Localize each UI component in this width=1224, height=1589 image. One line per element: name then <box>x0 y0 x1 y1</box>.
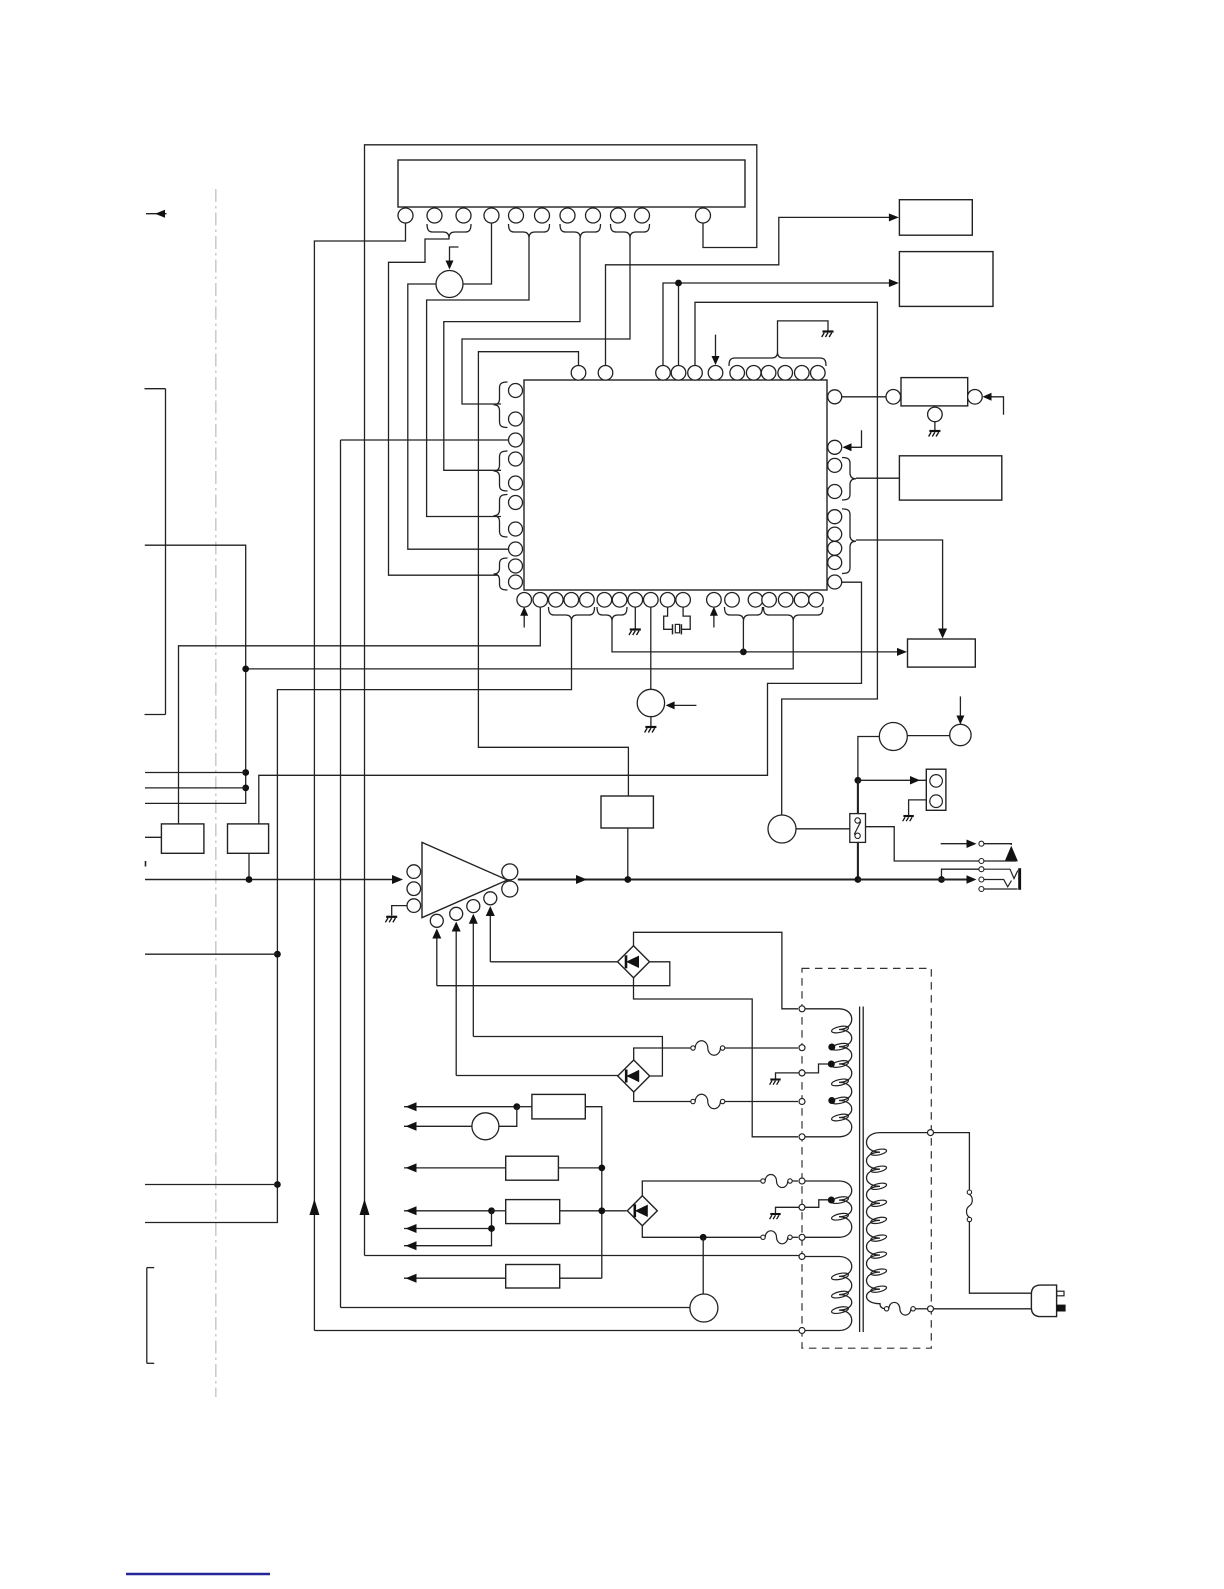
connector CN1 pin 8 <box>586 208 601 223</box>
left stub into box alpha <box>145 836 161 838</box>
switch SW1 lever <box>854 822 861 835</box>
left stub wire y788 <box>145 787 246 789</box>
tap t7 wire <box>805 1200 829 1208</box>
main line final segment <box>858 878 970 880</box>
connector CN1 pin 3 <box>456 208 471 223</box>
wire bridge D2 bottom to fuse F2 <box>634 1092 691 1102</box>
wire switch SW1 bottom to main line <box>857 842 859 879</box>
bridge rectifier D3 <box>627 1196 657 1226</box>
wire fuse F1 to transformer t2 <box>725 1047 798 1049</box>
connector CN1 pin 11 <box>696 208 711 223</box>
wire IC top pins T3/T4 to box B <box>663 279 899 366</box>
main line output segment <box>518 878 858 880</box>
IC U1 right pin R5 <box>828 510 842 524</box>
junction main line to T3 <box>938 876 945 883</box>
op-amp input pin 2 <box>407 882 421 896</box>
tiny tick at left edge <box>145 861 147 867</box>
connector CN1 pin 2 <box>427 208 442 223</box>
wire CN1 pin1 to bus x314 <box>314 223 405 1331</box>
wire bridge D3 top to fuse F3 <box>642 1181 761 1196</box>
wire main junction up to jack T3 <box>942 869 979 879</box>
transformer secondary winding <box>867 1133 929 1309</box>
transformer terminal t5 <box>799 1134 805 1140</box>
junction arrow4 node <box>488 1207 495 1214</box>
wire IC top pin T2 to box A <box>606 213 899 365</box>
wire CN1 pins5-6 brace to IC brace L6-7 <box>427 238 529 517</box>
jack terminal T2 <box>979 859 984 864</box>
AC plug P1 body <box>1031 1285 1056 1317</box>
ground at tap t3 <box>770 1073 799 1085</box>
stem op-amp pin8 to bridge D2 wrap <box>469 914 663 1076</box>
IC U1 bottom pin B14 <box>748 593 763 608</box>
tap t7 dot <box>828 1197 835 1204</box>
ground at op-amp pin 3 <box>385 906 407 923</box>
IC U1 bottom pin B13 <box>725 593 740 608</box>
left connector bracket 1 <box>145 389 166 715</box>
switch SW1 contact 2 <box>855 833 860 838</box>
wire to IC pin L3 from bus x340 <box>341 440 509 1308</box>
headphone jack box body <box>926 769 946 810</box>
junction at switch top <box>855 777 862 784</box>
junction R3 on bus x601 <box>598 1207 605 1214</box>
IC U1 bottom pin B6 <box>597 593 612 608</box>
stem op-amp pin7 to bridge D2 left <box>452 922 619 1076</box>
IC U1 bottom pin B12 <box>707 593 722 608</box>
IC U1 body <box>524 380 827 590</box>
box beta <box>228 824 269 853</box>
IC U1 bottom pin B1 <box>517 593 532 608</box>
arrow on main line after op-amp <box>576 875 587 884</box>
jack terminal T1 <box>979 841 984 846</box>
transformer terminal t9 <box>799 1254 805 1260</box>
wire IC brace B3-B5 to bus x277 <box>145 621 572 1223</box>
arrow wire junction to jack box <box>858 776 926 785</box>
wire box R2 right to bus x601 <box>558 1167 601 1169</box>
wire circle C9 up to junction <box>499 1107 517 1127</box>
fuse F5 vertical <box>967 1190 973 1222</box>
wire switch SW1 right to jack T2 <box>866 827 979 861</box>
IC U1 bottom pin B9 <box>644 593 659 608</box>
jack terminal T4 <box>979 877 984 882</box>
op-amp bottom pin 9 <box>484 892 497 905</box>
up arrow on bus x364 <box>360 1199 370 1215</box>
brace under CN1 pins 2-3 <box>427 224 471 238</box>
brace at IC right pins R5-R8 <box>842 509 856 574</box>
brace under IC bottom pins B13-B14 <box>725 607 763 621</box>
up arrow on bus x314 <box>309 1199 319 1215</box>
transformer terminal t1 <box>799 1006 805 1012</box>
circle C7 <box>879 723 907 751</box>
arrow into motor M1 <box>446 247 459 270</box>
brace under CN1 pins 9-10 <box>611 224 650 238</box>
IC U1 left pin L10 <box>509 575 523 589</box>
IC U1 bottom pin B16 <box>778 593 793 608</box>
left arrow 3 <box>404 1163 506 1172</box>
op-amp bottom pin 6 <box>430 914 443 927</box>
junction T4 on box B wire <box>675 280 682 287</box>
IC U1 bottom pin B18 <box>809 593 824 608</box>
junction arrow1/circle C9 <box>513 1103 520 1110</box>
brace under IC bottom pins B3-B5 <box>549 607 595 621</box>
left stub wire y772 <box>145 772 246 774</box>
wire box R4 right to bus x601 <box>560 1277 602 1279</box>
arrow into jack T4 <box>967 875 977 884</box>
junction bus x277 stub2 <box>274 1181 281 1188</box>
jack T2 to tip contact <box>984 860 1017 862</box>
jack box contact 2 <box>930 795 943 808</box>
switch SW1 body <box>850 814 866 843</box>
wire bus x314 to transformer t10 <box>314 1330 802 1332</box>
wire terminal s1 to fuse F5 <box>934 1133 970 1190</box>
IC U1 left pin L7 <box>509 522 523 536</box>
IC U1 bottom pin B17 <box>794 593 809 608</box>
transformer terminal t7 <box>799 1204 805 1210</box>
transformer terminal t8 <box>799 1234 805 1240</box>
ground at jack box <box>903 800 927 821</box>
brace at IC right pins R3-R4 <box>842 458 856 501</box>
box alpha <box>161 824 204 853</box>
wire CN1 pins9-10 brace to IC brace L1-2 <box>462 238 630 404</box>
left arrow 6 head <box>406 1241 417 1250</box>
wire circle C6 to switch SW1 <box>796 828 850 830</box>
fuse F6 secondary <box>884 1302 915 1315</box>
wire circle C7 to C8 <box>907 735 949 737</box>
transformer primary winding 1 <box>805 1009 852 1137</box>
fuse F1 <box>691 1041 725 1055</box>
ground at IC top brace wire <box>822 332 834 338</box>
left arrow 2 <box>404 1122 472 1131</box>
ground at IC pin B8 <box>629 607 641 635</box>
IC U1 bottom pin B7 <box>612 593 627 608</box>
box R1 <box>532 1094 585 1119</box>
transformer shield dashed box <box>802 968 931 1348</box>
box D <box>899 456 1001 500</box>
arrow into circle C5 <box>666 701 697 709</box>
jack T1 to tip contact <box>984 844 1011 845</box>
connector CN1 body <box>398 160 745 207</box>
bridge rectifier D2 <box>618 1060 650 1092</box>
wire bus x340 to circle C10 <box>341 1307 690 1309</box>
left stub wire y954 <box>145 953 277 955</box>
IC U1 left pin L4 <box>509 452 523 466</box>
IC U1 top pin T4 <box>671 366 686 381</box>
motor M1 circle <box>436 271 463 298</box>
stem box R5 to main line <box>627 828 629 880</box>
junction R2 on bus x601 <box>598 1165 605 1172</box>
junction D3 bottom to circle C10 <box>700 1234 707 1241</box>
transformer terminal t4 <box>799 1099 805 1105</box>
circle C8 <box>950 724 971 745</box>
AC plug prong 1 <box>1057 1291 1064 1296</box>
IC U1 bottom pin B4 <box>564 593 579 608</box>
junction bus x245 at IC net <box>242 666 249 673</box>
wire fuse F3 to transformer t6 <box>792 1180 798 1182</box>
brace under CN1 pins 7-8 <box>560 224 601 238</box>
circle C9 <box>472 1113 499 1140</box>
ground at tap t7 <box>770 1207 799 1219</box>
connector CN1 pin 10 <box>635 208 650 223</box>
brace at IC left pins L4-L5 <box>494 451 508 491</box>
ground under circle P3 <box>929 422 941 437</box>
circle C6 <box>768 815 796 843</box>
left arrow 4 <box>404 1206 492 1215</box>
wire IC brace B6-B7 to box E <box>612 621 907 656</box>
IC U1 bottom pin B3 <box>549 593 564 608</box>
jack tip contact triangle <box>1005 846 1018 862</box>
tap t4 dot <box>828 1097 835 1104</box>
fuse F3 <box>761 1175 792 1188</box>
IC U1 top pin T6 <box>708 366 723 381</box>
junction arrow5 node <box>488 1225 495 1232</box>
IC U1 bottom pin B2 <box>533 593 548 608</box>
wire junction to switch SW1 top <box>857 780 859 813</box>
wire bridge D1 bottom to transformer t5 <box>634 978 799 1137</box>
junction bus x245 stub1 <box>242 769 249 776</box>
IC U1 top pin T7 <box>730 366 745 381</box>
IC U1 top pin T2 <box>598 366 613 381</box>
bridge rectifier D1 <box>618 946 650 978</box>
transformer core <box>860 1007 864 1333</box>
tap t3 wire <box>805 1064 829 1073</box>
IC U1 right pin R8 <box>828 556 842 570</box>
connector CN1 pin 1 <box>398 208 413 223</box>
tap t3 dot <box>828 1061 835 1068</box>
brace at IC left pins L9-L10 <box>494 558 508 590</box>
connector CN1 pin 9 <box>611 208 626 223</box>
circle P2 at box C right <box>968 390 983 405</box>
wire IC top pin T1 to rect R5 via x478 <box>478 352 628 796</box>
fuse F2 <box>691 1094 725 1108</box>
connector CN1 pin 6 <box>535 208 550 223</box>
wire CN1 pins7-8 brace to IC brace L4-5 <box>444 238 580 470</box>
op-amp bottom pin 7 <box>450 907 463 920</box>
left stub wire y1184 <box>145 1184 277 1186</box>
wire fuse F2 to transformer t4 <box>725 1101 798 1103</box>
IC U1 left pin L1 <box>509 384 523 398</box>
ground under circle C5 <box>645 717 657 733</box>
wire bridge D2 top to fuse F1 <box>634 1048 691 1060</box>
wire IC brace B15-B18 to bus x245 <box>246 621 794 669</box>
arrow into IC top pin T6 <box>712 335 720 365</box>
jack terminal T1 wire with arrow <box>941 839 977 848</box>
IC U1 top pin T3 <box>656 366 671 381</box>
op-amp U2 triangle <box>422 842 507 917</box>
wire terminal s2 to plug <box>934 1308 1032 1310</box>
IC U1 right pin R4 <box>828 485 842 499</box>
IC U1 top pin T10 <box>778 366 793 381</box>
IC U1 bottom pin B5 <box>580 593 595 608</box>
wire junction to box R3 <box>492 1210 506 1212</box>
IC U1 right pin R9 <box>828 575 842 589</box>
junction box R5 on main line <box>624 876 631 883</box>
fuse F4 <box>761 1231 792 1244</box>
jack sleeve bar <box>1018 868 1021 890</box>
junction switch on main line <box>855 876 862 883</box>
IC U1 left pin L5 <box>509 476 523 490</box>
op-amp output pin 4 <box>502 864 518 880</box>
wire fuse F6 to terminal s2 <box>915 1308 927 1310</box>
brace under IC bottom pins B15-B18 <box>764 607 824 621</box>
IC U1 top pin T1 <box>571 366 586 381</box>
box R3 <box>506 1200 560 1224</box>
circle C5 <box>637 689 664 716</box>
page edge arrow pointing left <box>146 210 167 218</box>
footer rule <box>126 1573 270 1576</box>
wire box R1 right to bus x601 <box>585 1107 602 1279</box>
wire bus x364 to transformer t9 <box>365 1255 803 1257</box>
transformer primary winding 3 <box>805 1257 852 1331</box>
wire IC pin R1 to circle P1 <box>842 396 886 398</box>
wire IC top pin T5 to circle C6 <box>695 302 877 815</box>
IC U1 bottom pin B11 <box>676 593 691 608</box>
IC U1 top pin T5 <box>688 366 703 381</box>
wire IC pin R9 to box beta loop <box>259 582 862 823</box>
wire junction down to circle C10 <box>702 1237 704 1294</box>
arrow into circle C8 <box>956 696 964 724</box>
IC U1 top pin T8 <box>746 366 761 381</box>
wire IC pin B9 to circle C5 <box>650 607 652 689</box>
brace at IC left pins L6-L7 <box>494 495 508 538</box>
wire bracket mid line to bus x245 <box>145 545 246 803</box>
IC U1 right pin R2 <box>828 440 842 454</box>
wire motor M1 to IC pin L8 <box>408 284 509 549</box>
wire bridge D1 top to transformer t1 <box>634 932 799 1009</box>
jack T3 spring contact <box>984 869 1018 878</box>
wire IC pin B2 to box alpha <box>179 607 541 824</box>
junction brace B13-B14 on box E wire <box>740 649 747 656</box>
wire CN1 pins2-3 brace staircase to bus x388 <box>389 238 498 575</box>
stem IC brace B13-B14 <box>742 621 744 652</box>
left connector bracket 2 <box>147 1268 154 1364</box>
IC U1 left pin L9 <box>509 559 523 573</box>
crystal X1 <box>664 607 691 635</box>
transformer terminal t2 <box>799 1045 805 1051</box>
AC plug prong 2 <box>1057 1305 1066 1312</box>
switch SW1 contact 1 <box>855 818 860 823</box>
box A <box>899 200 972 236</box>
transformer primary winding 2 <box>805 1181 852 1237</box>
box B <box>899 252 993 307</box>
wire IC brace R5-R8 to box E top <box>856 540 947 639</box>
stem op-amp pin9 to bridge D1 left <box>486 906 618 962</box>
brace over IC top pins T7-T12 <box>729 352 826 366</box>
IC U1 right pin R7 <box>828 541 842 555</box>
wire junction to box R1 <box>517 1106 532 1108</box>
arrow into IC bottom pin B1 <box>520 607 528 628</box>
arrow on main line into op-amp <box>392 875 403 884</box>
brace under CN1 pins 5-6 <box>509 224 550 238</box>
IC U1 bottom pin B10 <box>660 593 675 608</box>
arrow stub into IC pin R2 <box>843 430 862 451</box>
left arrow 7 <box>404 1274 506 1283</box>
op-amp output pin 5 <box>502 881 518 897</box>
stem op-amp pin6 to bridge D1 wrap <box>432 929 670 986</box>
IC U1 left pin L8 <box>509 542 523 556</box>
IC U1 top pin T9 <box>761 366 776 381</box>
circle C10 <box>690 1294 718 1322</box>
box R4 <box>506 1265 560 1289</box>
arrow stub into circle P2 <box>983 393 1004 415</box>
wire CN1 pin11 outer loop to bus x364 <box>365 145 757 1256</box>
junction bus x245 stub2 <box>242 785 249 792</box>
brace at IC left pins L1-L2 <box>494 382 508 428</box>
arrow into IC bottom pin B12 <box>710 607 718 628</box>
wire CN1 pin4 to motor M1 <box>463 223 492 284</box>
transformer terminal s2 <box>928 1306 934 1312</box>
IC U1 bottom pin B8 <box>628 593 643 608</box>
IC U1 left pin L3 <box>509 433 523 447</box>
box E <box>908 639 976 667</box>
transformer terminal t3 <box>799 1070 805 1076</box>
circle P1 at box C left <box>886 390 901 405</box>
wire IC top brace to ground <box>778 321 829 352</box>
transformer terminal t6 <box>799 1178 805 1184</box>
connector CN1 pin 7 <box>560 208 575 223</box>
board boundary dash-dot line <box>215 189 217 1397</box>
circle P3 under box C <box>928 407 943 422</box>
IC U1 right pin R1 <box>828 390 842 404</box>
transformer terminal s1 <box>928 1130 934 1136</box>
op-amp bottom pin 8 <box>467 900 480 913</box>
IC U1 top pin T12 <box>811 366 826 381</box>
left arrow 1 <box>404 1102 517 1111</box>
wire fuse F4 to transformer t8 <box>792 1236 798 1238</box>
jack terminal T3 <box>979 867 984 872</box>
IC U1 bottom pin B15 <box>762 593 777 608</box>
jack terminal T5 <box>979 887 984 892</box>
box R5 <box>601 796 653 828</box>
wire IC brace R3-R4 to box D <box>856 477 899 479</box>
IC U1 right pin R6 <box>828 527 842 541</box>
wire bridge D3 bottom to fuse F4 <box>642 1226 761 1238</box>
wire circle C7 to junction <box>858 737 879 781</box>
IC U1 left pin L2 <box>509 412 523 426</box>
brace under IC bottom pins B6-B7 <box>597 607 627 621</box>
box R2 <box>506 1156 559 1180</box>
left arrow 5 <box>404 1224 492 1233</box>
op-amp input pin 3 <box>407 899 421 913</box>
wire fuse F5 to plug <box>969 1222 1031 1294</box>
wire box R3 right to bridge D3 <box>560 1210 627 1212</box>
jack T4 spring contact <box>984 880 1012 887</box>
transformer terminal t10 <box>799 1328 805 1334</box>
connector CN1 pin 5 <box>509 208 524 223</box>
tap t2 dot <box>828 1044 835 1051</box>
IC U1 right pin R3 <box>828 458 842 472</box>
jack box contact 1 <box>930 775 943 788</box>
junction box beta stem on main line <box>246 876 253 883</box>
main line left segment <box>145 879 401 881</box>
wire arrow4 node down <box>404 1211 492 1246</box>
connector CN1 pin 4 <box>484 208 499 223</box>
jack T5 wire to sleeve <box>984 888 1018 890</box>
junction bus x277 stub1 <box>274 951 281 958</box>
box C body <box>901 378 968 406</box>
IC U1 top pin T11 <box>795 366 810 381</box>
IC U1 left pin L6 <box>509 496 523 510</box>
op-amp input pin 1 <box>407 865 421 879</box>
stem box beta to main line <box>248 853 250 879</box>
